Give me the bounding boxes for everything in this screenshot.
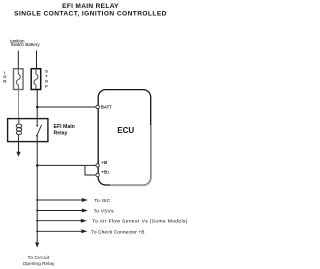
label Ignition Switch bbox=[10, 38, 25, 47]
label IGN (vertical) bbox=[3, 70, 6, 83]
wire IGN fuse to relay coil (gray) bbox=[18, 90, 20, 119]
svg-text:BATT: BATT bbox=[101, 104, 112, 109]
svg-text:To ISC: To ISC bbox=[94, 198, 110, 204]
svg-text:Opening Relay: Opening Relay bbox=[23, 261, 55, 267]
svg-text:+B: +B bbox=[101, 160, 108, 165]
wire to ECU +B bbox=[37, 164, 96, 166]
svg-text:To Check Connector +B: To Check Connector +B bbox=[91, 229, 144, 235]
fuse STOP bbox=[31, 69, 41, 90]
branch To Check Connector bbox=[36, 229, 144, 235]
main bus wire from relay switch down bbox=[36, 142, 38, 244]
wire from Ignition Switch to IGN fuse bbox=[17, 51, 19, 69]
svg-text:SINGLE CONTACT, IGNITION CONTR: SINGLE CONTACT, IGNITION CONTROLLED bbox=[14, 11, 167, 18]
svg-text:ECU: ECU bbox=[117, 126, 134, 135]
label STOP (vertical) bbox=[45, 69, 48, 89]
wire bracket to +B1 bbox=[85, 165, 96, 175]
EFI Main Relay box bbox=[8, 119, 48, 142]
wire branch to ECU BATT pin bbox=[37, 106, 96, 108]
ground wire below coil bbox=[18, 142, 20, 154]
branch To ISC bbox=[36, 198, 110, 204]
svg-text:Switch: Switch bbox=[11, 42, 25, 47]
svg-text:Battery: Battery bbox=[25, 42, 40, 47]
label To Circuit Opening Relay bbox=[23, 255, 55, 267]
fuse IGN bbox=[14, 69, 24, 90]
branch To Air Flow Sensor bbox=[36, 219, 188, 225]
pin +B1 bbox=[96, 173, 99, 176]
svg-text:To Air Flow Sensor Vs (Some Mo: To Air Flow Sensor Vs (Some Models) bbox=[92, 219, 187, 225]
svg-text:EFI MAIN RELAY: EFI MAIN RELAY bbox=[62, 3, 119, 10]
junction to +B / +B1 bbox=[36, 164, 39, 167]
branch To VSVs bbox=[36, 209, 114, 215]
bus arrow to circuit opening relay bbox=[35, 243, 39, 248]
svg-text:To VSVs: To VSVs bbox=[94, 209, 114, 215]
label EFI Main Relay bbox=[54, 124, 75, 137]
relay switch contact bbox=[36, 119, 42, 142]
svg-text:+B1: +B1 bbox=[101, 169, 109, 174]
svg-text:To Circuit: To Circuit bbox=[28, 255, 50, 261]
svg-text:N: N bbox=[3, 78, 6, 83]
svg-text:EFI Main: EFI Main bbox=[54, 124, 75, 130]
wire from Battery to STOP fuse bbox=[36, 51, 38, 69]
pin BATT bbox=[96, 105, 99, 108]
svg-text:P: P bbox=[45, 84, 48, 89]
wire STOP fuse down to relay switch bbox=[36, 90, 38, 119]
pin +B bbox=[96, 164, 99, 167]
relay coil bbox=[16, 119, 22, 142]
ECU box bbox=[98, 90, 151, 186]
svg-text:Relay: Relay bbox=[54, 131, 68, 137]
ground (down arrow) bbox=[16, 152, 20, 157]
junction at BATT branch bbox=[36, 106, 39, 109]
